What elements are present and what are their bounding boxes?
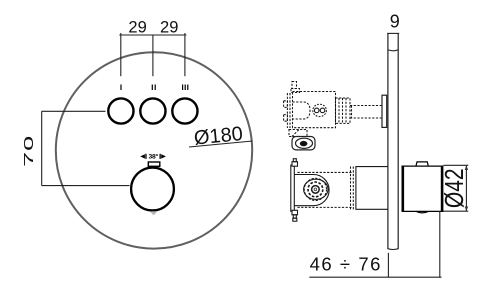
svg-text:Ø42: Ø42 bbox=[440, 168, 470, 208]
svg-text:70: 70 bbox=[21, 135, 36, 167]
svg-text:29: 29 bbox=[128, 19, 146, 37]
svg-text:Ø180: Ø180 bbox=[193, 123, 244, 150]
svg-text:38°: 38° bbox=[148, 153, 158, 161]
svg-text:46 ÷ 76: 46 ÷ 76 bbox=[310, 253, 382, 274]
svg-text:29: 29 bbox=[160, 19, 178, 37]
svg-text:9: 9 bbox=[390, 11, 400, 31]
